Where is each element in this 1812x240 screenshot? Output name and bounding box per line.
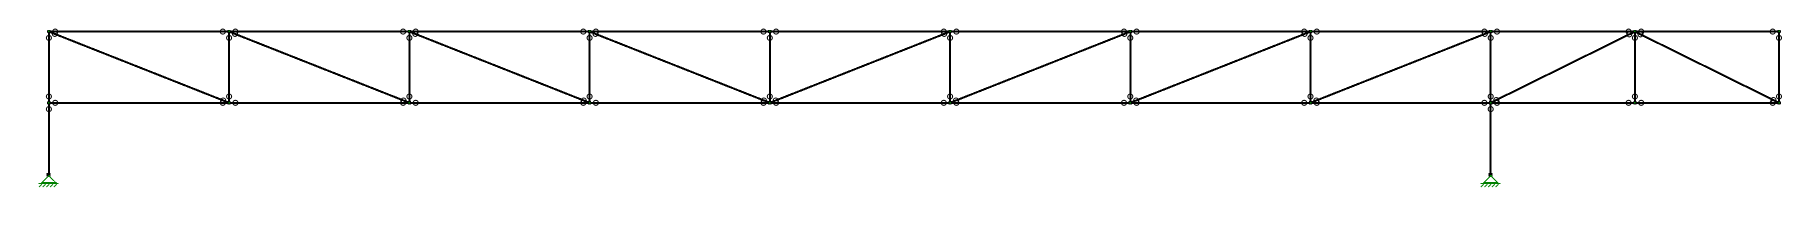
joint T10	[1633, 30, 1636, 33]
joint B1 node dot	[48, 102, 50, 104]
joint B11 moment releases	[1770, 100, 1775, 105]
diagonal web member D4	[590, 32, 770, 103]
joint T1	[47, 30, 50, 33]
joint T6 node dot	[949, 30, 951, 32]
joint T3	[408, 30, 411, 33]
joint B1	[47, 101, 50, 104]
joint T3 node dot	[409, 30, 411, 32]
top chord member	[48, 31, 1780, 33]
joint B6	[949, 101, 952, 104]
joint T4 moment releases	[581, 29, 586, 34]
joint B5 moment releases	[761, 100, 766, 105]
joint B3 moment releases	[401, 100, 406, 105]
right column member C2	[1490, 103, 1492, 175]
joint B7	[1129, 101, 1132, 104]
joint T9 node dot	[1490, 30, 1492, 32]
diagonal web member D5	[770, 32, 950, 103]
joint B5 node dot	[769, 102, 771, 104]
joint B6 moment releases	[941, 100, 946, 105]
diagonal web member D2	[229, 32, 409, 103]
vertical web member V3	[408, 32, 410, 103]
joint B10 moment releases	[1626, 100, 1631, 105]
support joint node dot	[48, 175, 50, 177]
joint B7 moment releases	[1122, 100, 1127, 105]
diagonal web member D3	[409, 32, 589, 103]
vertical web member V8	[1310, 32, 1312, 103]
joint T10 moment releases	[1626, 29, 1631, 34]
joint B7 node dot	[1130, 102, 1132, 104]
joint B2	[228, 101, 231, 104]
joint B9	[1489, 101, 1492, 104]
joint B4	[588, 101, 591, 104]
joint T1 node dot	[48, 30, 50, 32]
joint T11 moment releases	[1770, 29, 1775, 34]
diagonal web member D8	[1311, 32, 1491, 103]
joint B1 moment releases	[53, 100, 58, 105]
joint T7 node dot	[1130, 30, 1132, 32]
diagonal web member D7	[1130, 32, 1310, 103]
joint T2 node dot	[228, 30, 230, 32]
support joint	[1489, 173, 1493, 177]
pinned support at x=49	[39, 176, 59, 187]
joint T7 moment releases	[1122, 29, 1127, 34]
joint T6 moment releases	[941, 29, 946, 34]
joint T2 moment releases	[220, 29, 225, 34]
vertical web member V10	[1634, 32, 1636, 103]
joint T4 node dot	[589, 30, 591, 32]
vertical web member V1	[48, 32, 50, 103]
diagonal web member D1	[49, 32, 229, 103]
joint T8	[1309, 30, 1312, 33]
joint B3 node dot	[409, 102, 411, 104]
pinned support at x=1491	[1480, 176, 1500, 187]
joint T3 moment releases	[401, 29, 406, 34]
joint T10 node dot	[1634, 30, 1636, 32]
diagonal web member D10	[1635, 32, 1779, 103]
joint B2 node dot	[228, 102, 230, 104]
joint B10 node dot	[1634, 102, 1636, 104]
joint B8 moment releases	[1302, 100, 1307, 105]
joint T8 node dot	[1310, 30, 1312, 32]
joint T5	[768, 30, 771, 33]
support joint	[47, 173, 51, 177]
joint T2	[228, 30, 231, 33]
joint B6 node dot	[949, 102, 951, 104]
vertical web member V6	[949, 32, 951, 103]
vertical web member V9	[1490, 32, 1492, 103]
joint T7	[1129, 30, 1132, 33]
vertical web member V7	[1129, 32, 1131, 103]
joint T8 moment releases	[1302, 29, 1307, 34]
vertical web member V5	[769, 32, 771, 103]
joint B4 node dot	[589, 102, 591, 104]
joint B11	[1777, 101, 1780, 104]
bottom chord member	[48, 102, 1780, 104]
joint T1 moment releases	[53, 29, 58, 34]
joint T9 moment releases	[1482, 29, 1487, 34]
joint T4	[588, 30, 591, 33]
joint B3	[408, 101, 411, 104]
joint B9 moment releases	[1482, 100, 1487, 105]
joint B8 node dot	[1310, 102, 1312, 104]
joint B5	[768, 101, 771, 104]
joint B10	[1633, 101, 1636, 104]
support joint node dot	[1490, 175, 1492, 177]
joint T5 moment releases	[761, 29, 766, 34]
joint B2 moment releases	[220, 100, 225, 105]
joint T11	[1777, 30, 1780, 33]
diagonal web member D6	[950, 32, 1130, 103]
left column member C1	[48, 103, 50, 175]
vertical web member V2	[228, 32, 230, 103]
joint T11 node dot	[1778, 30, 1780, 32]
joint T5 node dot	[769, 30, 771, 32]
vertical web member V4	[589, 32, 591, 103]
joint B11 node dot	[1778, 102, 1780, 104]
diagonal web member D9	[1491, 32, 1635, 103]
joint T9	[1489, 30, 1492, 33]
joint B4 moment releases	[581, 100, 586, 105]
joint B8	[1309, 101, 1312, 104]
vertical web member V11	[1778, 32, 1780, 103]
joint T6	[949, 30, 952, 33]
joint B9 node dot	[1490, 102, 1492, 104]
